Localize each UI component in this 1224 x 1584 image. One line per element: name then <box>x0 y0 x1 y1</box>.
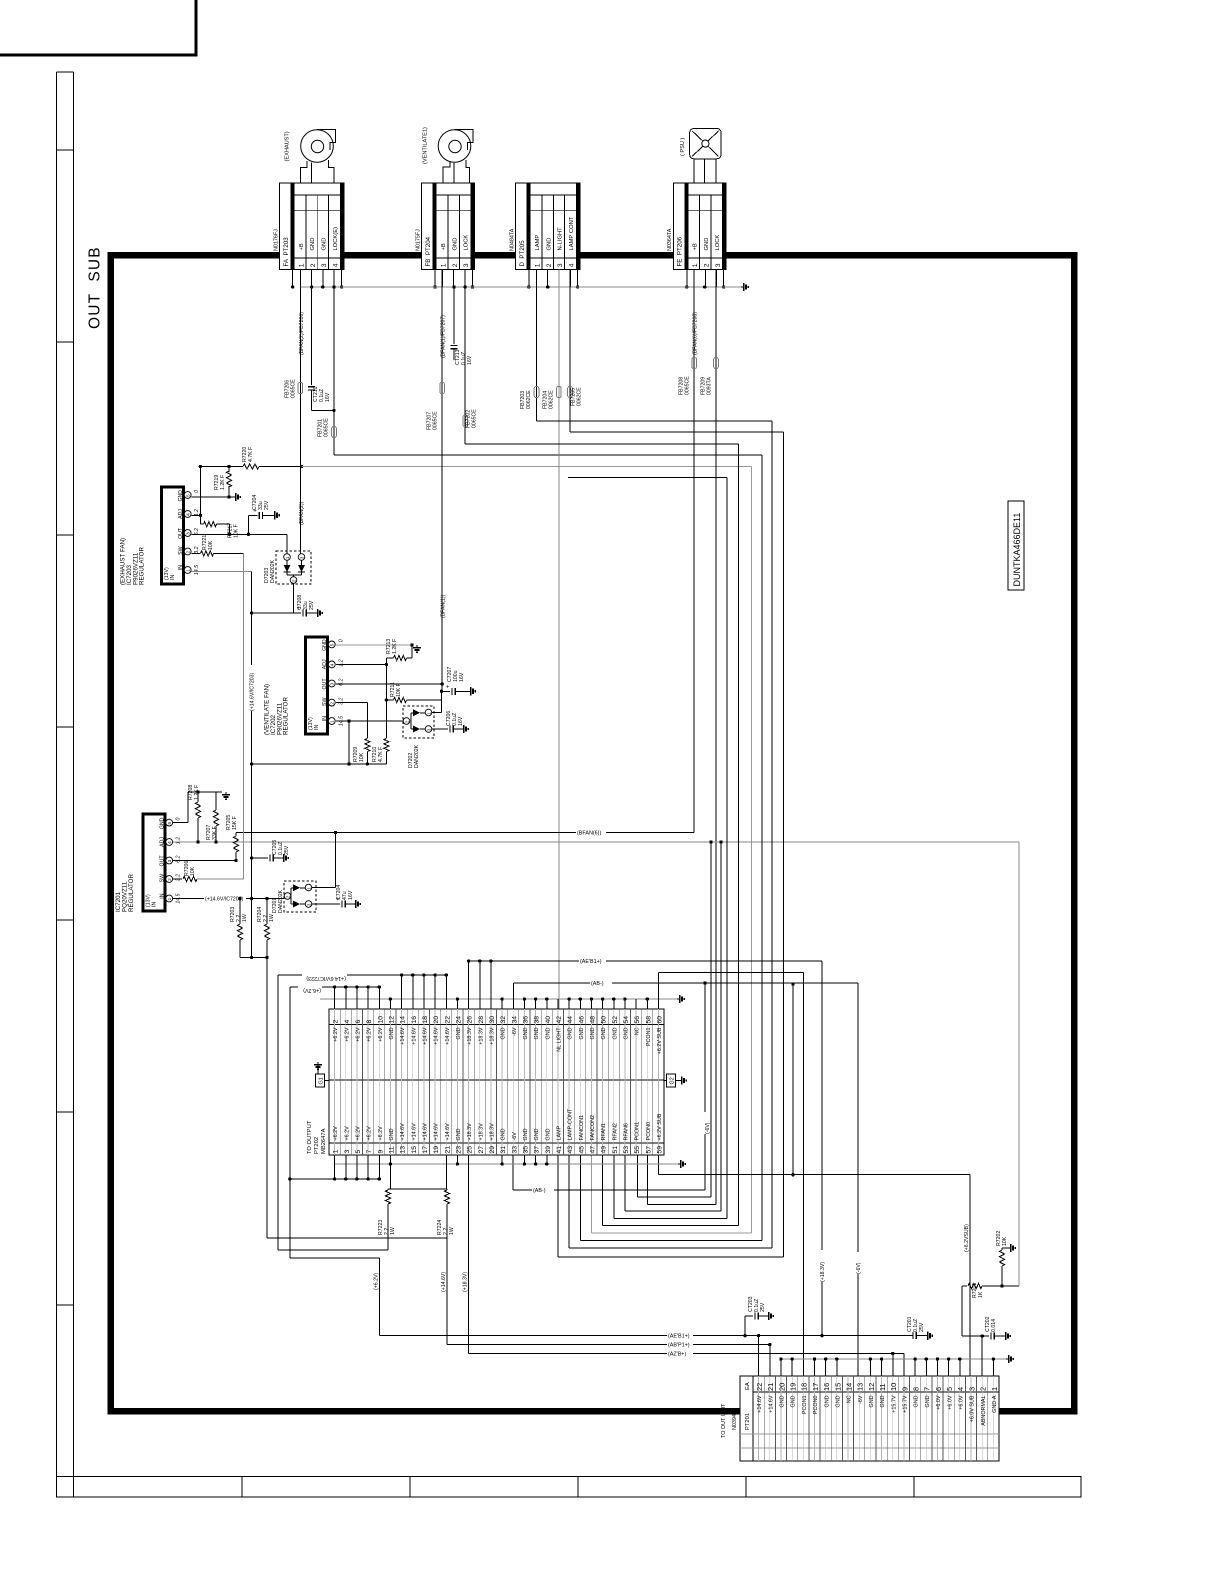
resistor R7205 15K F <box>226 815 239 863</box>
svg-text:4: 4 <box>332 263 339 267</box>
wire R7203/R7204 join <box>240 956 269 959</box>
svg-text:1: 1 <box>441 263 448 267</box>
resistor R7203 2.2 1W <box>230 897 248 958</box>
svg-text:0: 0 <box>194 490 200 493</box>
svg-text:0062CE: 0062CE <box>549 390 555 409</box>
fuse FB7202 0065CE <box>463 270 478 445</box>
svg-text:35: 35 <box>522 1146 529 1154</box>
svg-text:3: 3 <box>186 532 191 535</box>
svg-text:(EXHAUST): (EXHAUST) <box>285 131 291 161</box>
svg-text:38: 38 <box>534 1016 541 1024</box>
svg-text:12: 12 <box>867 1383 876 1391</box>
wire 793 branch <box>791 982 794 1174</box>
svg-text:FANCON2: FANCON2 <box>590 1115 596 1140</box>
ground (C7204) <box>272 511 279 519</box>
svg-text:+14.6V: +14.6V <box>411 1027 417 1045</box>
svg-text:+14.6V: +14.6V <box>434 1123 440 1141</box>
svg-text:LAMP-CONT: LAMP-CONT <box>568 1108 574 1140</box>
svg-text:16V: 16V <box>325 392 331 402</box>
svg-text:10K: 10K <box>359 752 365 762</box>
svg-text:1.2K F: 1.2K F <box>220 475 226 490</box>
svg-text:2: 2 <box>333 1020 340 1024</box>
svg-text:60: 60 <box>656 1016 663 1024</box>
svg-text:GND: GND <box>452 238 458 251</box>
svg-text:(BFAN(6)/FB7208): (BFAN(6)/FB7208) <box>693 312 699 355</box>
wire PT201 pin2 ABNORMAL <box>981 1336 983 1376</box>
svg-text:3: 3 <box>167 859 172 862</box>
svg-text:1.2K F: 1.2K F <box>392 639 398 654</box>
svg-text:-6V: -6V <box>512 1027 518 1036</box>
svg-text:11: 11 <box>878 1383 887 1391</box>
wire IC7201 pin1 to D7201 <box>252 898 285 900</box>
svg-text:-6V: -6V <box>858 1395 864 1404</box>
svg-text:GND: GND <box>579 1027 585 1039</box>
svg-text:0062CE: 0062CE <box>577 387 583 406</box>
ground (G2) <box>679 1076 686 1084</box>
resistor R7221 10K <box>192 535 244 556</box>
svg-text:1: 1 <box>330 720 335 723</box>
svg-text:REGULATOR: REGULATOR <box>139 547 146 585</box>
svg-text:29: 29 <box>489 1146 496 1154</box>
wire BFAN(1) vertical from PT204 pin1 <box>441 270 447 685</box>
resistor R7204 2.2 1W <box>257 897 275 958</box>
svg-text:15: 15 <box>411 1146 418 1154</box>
capacitor CT201 0.1uZ 25V <box>907 1316 925 1339</box>
svg-text:LOCK(E): LOCK(E) <box>333 227 339 251</box>
svg-text:25V: 25V <box>309 600 315 610</box>
svg-text:FANCON1: FANCON1 <box>579 1115 585 1140</box>
wire left risers to bottom rails <box>267 958 292 1259</box>
svg-text:41: 41 <box>556 1146 563 1154</box>
svg-text:(BFAN(1)/FB7207): (BFAN(1)/FB7207) <box>441 315 447 358</box>
svg-text:+B: +B <box>441 243 447 250</box>
svg-text:IN: IN <box>152 902 158 907</box>
svg-text:+6.0V: +6.0V <box>936 1395 942 1410</box>
svg-text:+: + <box>446 684 450 690</box>
wire PCON1 right drop to PT201 pin18 <box>803 973 805 1377</box>
svg-text:17: 17 <box>811 1383 820 1391</box>
svg-text:(AZ'B+): (AZ'B+) <box>668 1351 686 1357</box>
svg-text:2: 2 <box>330 702 335 705</box>
svg-text:1K: 1K <box>978 1291 984 1298</box>
svg-text:+15.7V: +15.7V <box>891 1395 897 1413</box>
svg-text:(+18.3V): (+18.3V) <box>463 1272 469 1292</box>
svg-text:(+6.2VSUB): (+6.2VSUB) <box>964 1224 970 1252</box>
svg-text:LAMP: LAMP <box>535 235 541 251</box>
svg-text:10K: 10K <box>190 866 196 876</box>
svg-text:6: 6 <box>934 1387 943 1391</box>
wire route LAMP to PT202 pin43 <box>537 421 773 1248</box>
capacitor CT202 0.014 <box>962 1286 1003 1340</box>
diode D7201 DAN202K <box>272 881 316 913</box>
svg-text:4.7K F: 4.7K F <box>378 747 384 762</box>
svg-text:+B: +B <box>299 243 305 250</box>
svg-text:NC: NC <box>847 1395 853 1403</box>
svg-text:0065CE: 0065CE <box>324 418 330 437</box>
svg-text:47: 47 <box>589 1146 596 1154</box>
connector PT201 (TO OUT UNIT) <box>721 1376 999 1461</box>
svg-text:19: 19 <box>789 1383 798 1391</box>
wire route FB7209 to PT202 pin57 <box>647 1155 716 1205</box>
svg-text:32: 32 <box>500 1016 507 1024</box>
svg-text:13: 13 <box>400 1146 407 1154</box>
svg-text:3: 3 <box>557 263 564 267</box>
svg-text:N0394FJ: N0394FJ <box>732 1408 738 1430</box>
svg-text:2: 2 <box>546 263 553 267</box>
svg-text:+18.3V: +18.3V <box>467 1123 473 1141</box>
svg-text:N0176FJ: N0176FJ <box>273 229 279 251</box>
wire (AE'B1+) rail <box>379 1331 913 1376</box>
svg-text:56: 56 <box>634 1016 641 1024</box>
resistor R7206 10K <box>173 861 244 882</box>
svg-text:REGULATOR: REGULATOR <box>283 697 290 735</box>
svg-text:17: 17 <box>422 1146 429 1154</box>
svg-text:DUNTKA466DE11: DUNTKA466DE11 <box>1012 513 1022 587</box>
svg-text:GND: GND <box>869 1395 875 1407</box>
wire +18.3V bus (AE'B1+) <box>467 956 822 1009</box>
svg-text:+6.0V: +6.0V <box>947 1395 953 1410</box>
wire IC7202 pin3 OUT / BFAN(1) <box>336 682 444 691</box>
svg-text:0.014: 0.014 <box>991 1319 997 1332</box>
svg-text:2: 2 <box>452 263 459 267</box>
resistor R7220 4.7K F <box>199 447 752 470</box>
svg-text:26: 26 <box>467 1016 474 1024</box>
svg-text:0: 0 <box>338 639 344 642</box>
svg-text:18: 18 <box>422 1016 429 1024</box>
svg-text:3: 3 <box>321 263 328 267</box>
svg-text:5: 5 <box>167 822 172 825</box>
wire PT201 pin17 up <box>813 1357 816 1376</box>
svg-text:3: 3 <box>715 263 722 267</box>
svg-text:1: 1 <box>333 1150 340 1154</box>
svg-text:LOCK: LOCK <box>464 235 470 251</box>
svg-text:ADJ: ADJ <box>178 509 184 519</box>
ground (PT202 bottom bus) <box>678 1160 685 1168</box>
svg-text:0065CE: 0065CE <box>685 376 691 395</box>
svg-text:(-6V): (-6V) <box>705 1122 711 1134</box>
svg-text:(+6.2V): (+6.2V) <box>303 987 321 993</box>
wire IC7201 pin4 bus (gray long) <box>173 840 1019 843</box>
fuse FB7209 0093TA (LOCK PSU) <box>701 270 719 1205</box>
wire route (AB-) PT202 pin33 <box>513 981 711 1194</box>
wire route LAMP CONT to PT202 pin41 <box>558 432 784 1257</box>
svg-text:0062CE: 0062CE <box>526 390 532 409</box>
fuse FB7205 0062CE (LAMP CONT) <box>568 270 583 433</box>
resistor R7217 10K F <box>200 522 239 538</box>
svg-text:+B: +B <box>693 243 699 250</box>
svg-text:59: 59 <box>656 1146 663 1154</box>
svg-text:+14.6V: +14.6V <box>411 1123 417 1141</box>
svg-text:OUT: OUT <box>178 527 184 539</box>
wire IC7202 pin1 IN <box>336 719 405 764</box>
svg-text:8: 8 <box>366 1020 373 1024</box>
svg-text:9: 9 <box>900 1387 909 1391</box>
fuse FB7208 0065CE (+B PSU) <box>679 270 699 833</box>
svg-text:(AB-): (AB-) <box>533 1188 546 1194</box>
wire gray vertical from IC7203 pin1 <box>242 553 244 879</box>
svg-text:GND: GND <box>523 1027 529 1039</box>
svg-text:4.7K F: 4.7K F <box>248 447 254 462</box>
svg-text:10K: 10K <box>1002 1236 1008 1246</box>
svg-text:FE PT206: FE PT206 <box>677 236 684 266</box>
svg-text:GND: GND <box>178 490 184 502</box>
svg-text:14: 14 <box>844 1383 853 1391</box>
svg-text:2: 2 <box>703 263 710 267</box>
svg-text:1W: 1W <box>269 914 275 922</box>
wire bottom rails <box>267 1238 447 1336</box>
svg-text:16: 16 <box>822 1383 831 1391</box>
svg-text:NL LIGHT: NL LIGHT <box>557 1027 563 1052</box>
svg-text:13: 13 <box>856 1383 865 1391</box>
svg-text:49: 49 <box>601 1146 608 1154</box>
wire GND bus below connectors <box>300 285 741 288</box>
svg-text:3.2: 3.2 <box>176 874 182 881</box>
resistor R7223 2.2 1W <box>378 1189 396 1250</box>
resistor R7202 10K <box>996 1231 1008 1288</box>
svg-text:20: 20 <box>777 1383 786 1391</box>
svg-text:PT201: PT201 <box>745 1413 751 1430</box>
ground (GND bus) <box>741 283 748 291</box>
ground (R7213) <box>413 645 421 652</box>
svg-text:5: 5 <box>330 643 335 646</box>
wire (+14.6V/IC7203) vertical <box>248 572 256 958</box>
svg-text:5: 5 <box>945 1387 954 1391</box>
svg-text:+14.6V: +14.6V <box>400 1123 406 1141</box>
wire PT202 bottom GND bus <box>334 1155 678 1166</box>
wire stubs above PT202 other pins <box>558 997 649 1009</box>
svg-text:DAN202K: DAN202K <box>278 889 284 913</box>
svg-text:ADJ: ADJ <box>322 659 328 669</box>
wire IC7202 pin2 <box>336 703 368 738</box>
svg-text:+6.2V: +6.2V <box>333 1126 339 1141</box>
svg-text:GND: GND <box>880 1395 886 1407</box>
svg-text:ADJ: ADJ <box>160 837 166 847</box>
fan motor icon (EXHAUST) <box>285 130 336 183</box>
capacitor C7207 100u 16V <box>440 667 468 695</box>
svg-text:+14.6V: +14.6V <box>757 1395 763 1413</box>
svg-text:GND: GND <box>456 1027 462 1039</box>
wire D7203 pin1 up to OUT <box>286 534 288 553</box>
svg-text:IN: IN <box>160 893 166 898</box>
svg-text:55: 55 <box>634 1146 641 1154</box>
svg-text:+18.3V: +18.3V <box>490 1027 496 1045</box>
wire IC7202 pin5 / resistor R7213 1.2K F <box>336 639 414 661</box>
svg-text:5: 5 <box>355 1150 362 1154</box>
svg-text:+18.3V: +18.3V <box>478 1123 484 1141</box>
node G1 <box>316 1064 330 1087</box>
svg-text:10K F: 10K F <box>234 524 240 538</box>
svg-text:(VENTILATE1): (VENTILATE1) <box>423 127 429 164</box>
sheet frame: corner of adjacent drawing frame top-left <box>0 0 196 55</box>
wire route to PT202 pin55 <box>637 840 712 1197</box>
ground (R7202) <box>1002 1244 1015 1252</box>
svg-text:OUT: OUT <box>322 678 328 690</box>
svg-text:25V: 25V <box>284 845 290 855</box>
wire pin60 bus <box>658 973 803 1010</box>
svg-text:54: 54 <box>623 1016 630 1024</box>
ground (IC7203 pin5) <box>233 493 240 501</box>
svg-text:GND: GND <box>624 1027 630 1039</box>
svg-text:37: 37 <box>534 1146 541 1154</box>
part number box DUNTKA466DE11 <box>1008 501 1024 590</box>
svg-text:3: 3 <box>330 682 335 685</box>
svg-text:PT202: PT202 <box>314 1137 320 1154</box>
wire IC7201 pin5 <box>173 790 216 822</box>
svg-text:14: 14 <box>400 1016 407 1024</box>
svg-text:0093TA: 0093TA <box>707 377 713 395</box>
svg-text:MB2647A: MB2647A <box>321 1128 327 1154</box>
svg-text:10: 10 <box>377 1016 384 1024</box>
svg-text:LAMP CONT: LAMP CONT <box>569 216 575 250</box>
wire route PT202 pin59 +6.2VSUB <box>658 1155 970 1376</box>
svg-text:GND: GND <box>523 1128 529 1140</box>
svg-text:0065CE: 0065CE <box>472 409 478 428</box>
svg-text:GND: GND <box>545 1027 551 1039</box>
svg-text:(-6V): (-6V) <box>856 1262 862 1274</box>
svg-text:4: 4 <box>167 841 172 844</box>
svg-text:5: 5 <box>186 494 191 497</box>
svg-text:+6.2V: +6.2V <box>356 1027 362 1042</box>
svg-text:GND: GND <box>545 1128 551 1140</box>
svg-text:GND: GND <box>601 1027 607 1039</box>
svg-text:GND: GND <box>914 1395 920 1407</box>
svg-text:+14.6V: +14.6V <box>434 1027 440 1045</box>
svg-text:1: 1 <box>167 897 172 900</box>
svg-text:+6.2V SUB: +6.2V SUB <box>657 1027 663 1054</box>
PSU icon <box>680 129 721 159</box>
wire +14.6V bus above PT202 <box>278 971 448 1009</box>
svg-text:(+14.6V/IC7223): (+14.6V/IC7223) <box>306 975 346 981</box>
svg-text:GND: GND <box>389 1128 395 1140</box>
svg-text:+18.3V: +18.3V <box>490 1123 496 1141</box>
svg-text:GND: GND <box>389 1027 395 1039</box>
svg-text:(AB'P1+): (AB'P1+) <box>668 1342 690 1348</box>
svg-text:GND: GND <box>160 817 166 829</box>
svg-text:45: 45 <box>578 1146 585 1154</box>
svg-text:GND-A: GND-A <box>992 1395 998 1413</box>
svg-text:7: 7 <box>366 1150 373 1154</box>
svg-text:16: 16 <box>411 1016 418 1024</box>
svg-text:24: 24 <box>455 1016 462 1024</box>
connector PT205 (lamp) <box>510 183 580 270</box>
ground (PT202 top bus) <box>677 995 684 1003</box>
svg-text:+6.2V: +6.2V <box>333 1027 339 1042</box>
regulator IC7202 <box>264 637 345 735</box>
svg-text:53: 53 <box>623 1146 630 1154</box>
svg-text:TO OUTPUT: TO OUTPUT <box>307 1120 313 1154</box>
svg-text:34: 34 <box>511 1016 518 1024</box>
wire route FB7201 rail to PT202 pin45 <box>580 455 762 1240</box>
ground (C7204b) <box>353 900 360 908</box>
svg-text:GND: GND <box>835 1395 841 1407</box>
connector PT206 (psu) <box>667 183 726 270</box>
svg-text:GND: GND <box>704 238 710 251</box>
fuse FB7203 0062CE (LAMP) <box>520 270 539 422</box>
svg-text:(AE'B1+): (AE'B1+) <box>668 1333 690 1339</box>
resistor R7207 33K F <box>206 792 219 842</box>
wire PT201 GND bus <box>779 1357 1006 1376</box>
svg-text:1W: 1W <box>390 1227 396 1235</box>
ground (CT203) <box>766 1312 773 1320</box>
svg-text:1.2: 1.2 <box>338 659 344 666</box>
svg-text:FB PT204: FB PT204 <box>425 236 432 266</box>
connector PT202 (TO OUTPUT) <box>307 1009 664 1155</box>
svg-text:2: 2 <box>186 550 191 553</box>
svg-text:6: 6 <box>355 1020 362 1024</box>
resistor R7208 1.2K F <box>188 785 201 842</box>
svg-text:43: 43 <box>567 1146 574 1154</box>
node G2 <box>664 1074 679 1087</box>
svg-text:3: 3 <box>463 263 470 267</box>
svg-text:10K: 10K <box>208 540 214 550</box>
svg-text:LAMP: LAMP <box>557 1125 563 1140</box>
svg-text:15: 15 <box>833 1383 842 1391</box>
svg-text:30: 30 <box>489 1016 496 1024</box>
svg-text:33K F: 33K F <box>212 826 218 840</box>
svg-text:22: 22 <box>444 1016 451 1024</box>
svg-text:ABNORMAL: ABNORMAL <box>981 1396 987 1426</box>
fuse FB7206 0065CE <box>285 379 303 398</box>
svg-text:3.2: 3.2 <box>194 546 200 553</box>
svg-text:25V: 25V <box>760 1302 766 1312</box>
svg-text:+6.2V SUB: +6.2V SUB <box>657 1113 663 1140</box>
svg-text:GND: GND <box>824 1395 830 1407</box>
svg-text:2: 2 <box>310 263 317 267</box>
svg-text:NC: NC <box>635 1027 641 1035</box>
svg-text:GND: GND <box>791 1395 797 1407</box>
svg-text:GND: GND <box>780 1395 786 1407</box>
wire +14.6V below PT202 <box>388 1155 447 1189</box>
svg-text:RFAN1: RFAN1 <box>601 1123 607 1140</box>
resistor R7224 2.2 1W <box>437 1189 455 1238</box>
svg-text:+18.3V: +18.3V <box>467 1027 473 1045</box>
wire PT202 top GND bus <box>320 997 677 1009</box>
svg-text:1W: 1W <box>242 914 248 922</box>
svg-text:GND: GND <box>534 1128 540 1140</box>
wire (AB'P1+) rail <box>447 1340 772 1376</box>
svg-text:GND: GND <box>501 1027 507 1039</box>
svg-text:23: 23 <box>455 1146 462 1154</box>
wire gray right drop <box>1018 842 1020 1286</box>
svg-text:1: 1 <box>535 263 542 267</box>
svg-text:N-LIGHT: N-LIGHT <box>558 227 564 251</box>
wire -6V bus (AB-) <box>513 978 858 1009</box>
wire route PCON to PT202 pin53 <box>625 840 723 1211</box>
svg-text:33: 33 <box>511 1146 518 1154</box>
svg-text:IN: IN <box>178 565 184 570</box>
svg-text:GND: GND <box>612 1027 618 1039</box>
svg-text:+6.2V: +6.2V <box>378 1027 384 1042</box>
svg-text:REGULATOR: REGULATOR <box>128 874 135 912</box>
wire IC7201 pin3 OUT / BFAN(6) return <box>173 828 694 861</box>
wire (AZ'B+) rail <box>469 1349 904 1377</box>
capacitor C7204 33u 25V <box>247 495 272 536</box>
svg-text:GND: GND <box>501 1128 507 1140</box>
svg-text:0: 0 <box>176 817 182 820</box>
svg-text:40: 40 <box>545 1016 552 1024</box>
svg-text:TO OUT UNIT: TO OUT UNIT <box>721 1403 727 1438</box>
resistor R7211 10K F <box>385 682 442 703</box>
wire route LOCK PT204 to PT202 pin49 <box>465 444 738 1225</box>
svg-text:G1: G1 <box>319 1077 325 1084</box>
svg-text:(AE'B1+): (AE'B1+) <box>580 959 602 965</box>
fuse FB7201 0065CE <box>318 287 763 455</box>
ground (G1) <box>314 1062 322 1069</box>
wire IC7203 pin1 IN <box>192 571 252 573</box>
svg-text:16V: 16V <box>459 672 465 682</box>
svg-text:18: 18 <box>800 1383 809 1391</box>
capacitor C7206 0.1uZ 16V <box>432 711 464 733</box>
